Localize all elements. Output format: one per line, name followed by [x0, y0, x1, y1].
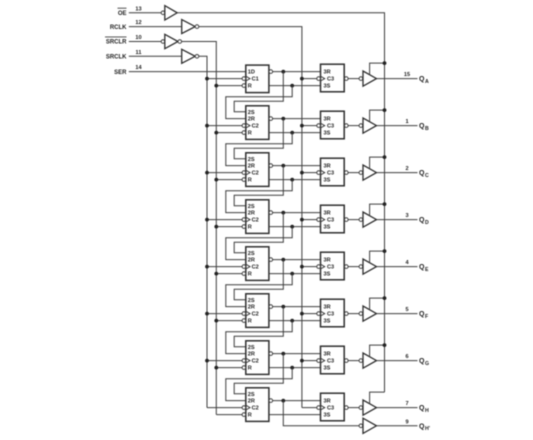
output buffer B6	[359, 306, 376, 321]
svg-text:2R: 2R	[248, 164, 255, 170]
svg-text:3S: 3S	[324, 225, 331, 231]
wire latch L7 to buffer	[348, 360, 359, 362]
wire FF4 Q to latch 3R	[273, 211, 321, 215]
wire FF7 Q to FF8 2S	[234, 354, 283, 394]
wire SRCLK to C input FF4	[205, 218, 242, 222]
wire SRCLK bus	[199, 56, 207, 407]
wire SRCLR bus	[182, 42, 217, 415]
svg-text:R: R	[248, 178, 252, 184]
svg-text:3R: 3R	[324, 399, 331, 405]
input label SER (pin 14)	[114, 65, 142, 76]
flip-flop FF1	[242, 65, 273, 93]
svg-text:A: A	[425, 79, 429, 85]
svg-text:C2: C2	[252, 406, 259, 412]
wire OE enable to buffer B7	[370, 343, 387, 357]
latch L1	[317, 64, 348, 92]
wire OE enable to buffer B3	[370, 155, 387, 168]
wire FF3 Qbar to FF4 2R	[226, 180, 292, 213]
pin 3	[405, 213, 408, 219]
wire FF8 Qbar to latch 3S	[269, 414, 321, 416]
svg-text:3S: 3S	[324, 319, 331, 325]
svg-text:11: 11	[136, 50, 142, 56]
flip-flop FF2	[242, 106, 273, 140]
wire output QE	[377, 266, 418, 268]
svg-text:R: R	[248, 413, 252, 419]
svg-text:3S: 3S	[324, 131, 331, 137]
wire SRCLK input	[129, 55, 182, 57]
svg-text:C2: C2	[252, 124, 259, 130]
flip-flop FF8	[242, 388, 273, 422]
svg-text:9: 9	[405, 419, 408, 425]
svg-text:3S: 3S	[324, 366, 331, 372]
svg-text:SRCLR: SRCLR	[106, 40, 127, 46]
svg-text:3R: 3R	[324, 258, 331, 264]
wire SRCLR to R input FF5	[214, 272, 242, 276]
wire FF2 Qbar to latch 3S	[269, 131, 321, 135]
wire FF6 Q to FF7 2S	[234, 307, 283, 347]
svg-text:C2: C2	[252, 265, 259, 271]
wire latch L4 to buffer	[348, 219, 359, 221]
svg-text:C3: C3	[327, 312, 334, 318]
wire SRCLK to C input FF8	[207, 407, 242, 409]
wire FF5 Q to latch 3R	[273, 258, 321, 262]
wire output QF	[377, 313, 418, 315]
wire FF3 Qbar to latch 3S	[269, 178, 321, 182]
buffer U4 SRCLK	[182, 49, 199, 63]
svg-text:C3: C3	[327, 406, 334, 412]
buffer U2 RCLK	[182, 20, 199, 34]
wire output QH'	[377, 425, 418, 427]
svg-text:2: 2	[405, 166, 408, 172]
output buffer B9 QH'	[359, 418, 376, 433]
wire output QH	[377, 407, 418, 409]
wire latch L6 to buffer	[348, 313, 359, 315]
svg-text:G: G	[425, 361, 429, 367]
wire FF1 Qbar to FF2 2R	[226, 86, 292, 119]
svg-text:2S: 2S	[248, 204, 255, 210]
label QH'	[419, 423, 430, 432]
svg-text:RCLK: RCLK	[110, 25, 127, 31]
svg-text:C2: C2	[252, 312, 259, 318]
svg-text:C2: C2	[252, 171, 259, 177]
pin 9	[405, 419, 408, 425]
flip-flop FF6	[242, 294, 273, 328]
output buffer B4	[359, 212, 376, 227]
svg-text:3S: 3S	[324, 272, 331, 278]
wire FF5 Qbar to latch 3S	[269, 272, 321, 276]
svg-text:4: 4	[405, 260, 409, 266]
svg-text:B: B	[425, 126, 429, 132]
wire FF3 Q to latch 3R	[273, 164, 321, 168]
label QE	[419, 264, 429, 273]
latch L7	[317, 346, 348, 374]
wire latch L1 to buffer	[348, 78, 359, 80]
svg-text:2R: 2R	[248, 117, 255, 123]
svg-text:R: R	[248, 319, 252, 325]
svg-text:14: 14	[135, 65, 142, 71]
svg-text:3R: 3R	[324, 352, 331, 358]
label QB	[419, 123, 429, 132]
svg-text:3S: 3S	[324, 413, 331, 419]
latch L2	[317, 111, 348, 139]
svg-text:1: 1	[405, 119, 408, 125]
wire FF6 Qbar to FF7 2R	[226, 321, 292, 354]
wire latch L5 to buffer	[348, 266, 359, 268]
wire FF7 Qbar to latch 3S	[269, 366, 321, 370]
wire FF1 Q to FF2 2S	[234, 72, 283, 112]
svg-text:6: 6	[405, 354, 408, 360]
svg-text:2S: 2S	[248, 392, 255, 398]
svg-text:F: F	[425, 314, 428, 320]
wire SRCLR to R input FF2	[214, 131, 242, 135]
svg-text:C2: C2	[252, 359, 259, 365]
svg-text:R: R	[248, 131, 252, 137]
svg-text:C: C	[425, 173, 429, 179]
wire SRCLK to C input FF6	[205, 312, 242, 316]
output buffer B3	[359, 165, 376, 180]
svg-text:OE: OE	[118, 11, 127, 17]
latch L4	[317, 205, 348, 233]
wire FF4 Qbar to FF5 2R	[226, 227, 292, 260]
wire SRCLR to R input FF6	[214, 319, 242, 323]
wire FF1 Q to latch 3R	[273, 70, 321, 74]
svg-text:D: D	[425, 220, 429, 226]
label QC	[419, 170, 429, 179]
output buffer B1	[359, 71, 376, 86]
pin 4	[405, 260, 409, 266]
wire SER to 1D	[129, 71, 246, 73]
svg-text:H': H'	[425, 426, 430, 432]
flip-flop FF7	[242, 341, 273, 375]
wire FF6 Qbar to latch 3S	[269, 319, 321, 323]
wire output QB	[377, 125, 418, 127]
wire output QD	[377, 219, 418, 221]
wire OE enable to buffer B2	[370, 108, 387, 122]
pin 1	[405, 119, 408, 125]
wire FF2 Q to latch 3R	[273, 117, 321, 121]
wire FF4 Q to FF5 2S	[234, 213, 283, 253]
svg-text:2R: 2R	[248, 211, 255, 217]
pin 15	[404, 72, 410, 78]
wire output QC	[377, 172, 418, 174]
wire SRCLR to R input FF4	[214, 225, 242, 229]
pin 2	[405, 166, 408, 172]
wire SRCLR to R input FF3	[214, 178, 242, 182]
wire output QA	[377, 78, 418, 80]
svg-text:C3: C3	[327, 359, 334, 365]
svg-text:E: E	[425, 267, 429, 273]
svg-text:2R: 2R	[248, 399, 255, 405]
wire SRCLK to C input FF1	[205, 77, 242, 81]
wire FF8 Q to latch 3R	[273, 399, 321, 403]
latch L5	[317, 252, 348, 280]
wire OE enable bus	[177, 13, 384, 392]
svg-text:7: 7	[405, 401, 408, 407]
wire SRCLR to R input FF7	[214, 366, 242, 370]
output buffer B2	[359, 118, 376, 133]
flip-flop FF5	[242, 247, 273, 281]
svg-text:3S: 3S	[324, 84, 331, 90]
wire FF2 Q to FF3 2S	[234, 119, 283, 159]
latch L3	[317, 158, 348, 186]
svg-text:SRCLK: SRCLK	[106, 55, 127, 61]
svg-text:3R: 3R	[324, 117, 331, 123]
svg-text:2S: 2S	[248, 251, 255, 257]
wire SRCLK to C input FF7	[205, 359, 242, 363]
output buffer B7	[359, 353, 376, 368]
wire OE enable to buffer B8	[370, 392, 385, 404]
wire SRCLK to C input FF3	[205, 171, 242, 175]
svg-text:C3: C3	[327, 218, 334, 224]
svg-text:15: 15	[404, 72, 410, 78]
svg-text:C3: C3	[327, 171, 334, 177]
svg-text:C3: C3	[327, 77, 334, 83]
buffer U3 SRCLR	[161, 34, 181, 48]
wire FF8 Q to QH' buffer	[283, 401, 359, 426]
svg-text:2R: 2R	[248, 305, 255, 311]
svg-text:C1: C1	[252, 77, 259, 83]
svg-text:C3: C3	[327, 265, 334, 271]
wire FF4 Qbar to latch 3S	[269, 225, 321, 229]
svg-text:3R: 3R	[324, 70, 331, 76]
wire SRCLR to R input FF8	[216, 414, 242, 416]
svg-text:3R: 3R	[324, 164, 331, 170]
wire output QG	[377, 360, 418, 362]
svg-text:13: 13	[135, 6, 141, 12]
wire FF3 Q to FF4 2S	[234, 166, 283, 206]
wire RCLK to C3 latch L8	[302, 407, 317, 409]
wire SRCLR to R input FF1	[214, 84, 242, 88]
wire RCLK to C3 latch L7	[300, 359, 317, 363]
label QA	[419, 76, 429, 85]
svg-text:10: 10	[135, 35, 141, 41]
wire RCLK to C3 latch L1	[300, 77, 317, 81]
svg-text:R: R	[248, 84, 252, 90]
label QG	[419, 358, 429, 367]
wire SRCLK to C input FF5	[205, 265, 242, 269]
wire FF7 Q to latch 3R	[273, 352, 321, 356]
svg-text:C3: C3	[327, 124, 334, 130]
wire RCLK to C3 latch L3	[300, 171, 317, 175]
svg-text:R: R	[248, 272, 252, 278]
pin 7	[405, 401, 408, 407]
svg-text:3S: 3S	[324, 178, 331, 184]
svg-text:2S: 2S	[248, 157, 255, 163]
svg-text:2S: 2S	[248, 298, 255, 304]
label QF	[419, 311, 428, 320]
input label SRCLK (pin 11)	[106, 50, 142, 61]
buffer U1 OE	[161, 6, 177, 20]
wire SRCLR input	[129, 41, 161, 43]
wire RCLK to C3 latch L5	[300, 265, 317, 269]
wire latch L2 to buffer	[348, 125, 359, 127]
wire RCLK to C3 latch L6	[300, 312, 317, 316]
wire FF6 Q to latch 3R	[273, 305, 321, 309]
svg-text:3R: 3R	[324, 211, 331, 217]
pin 5	[405, 307, 408, 313]
svg-text:R: R	[248, 366, 252, 372]
svg-text:2R: 2R	[248, 258, 255, 264]
wire RCLK to C3 latch L4	[300, 218, 317, 222]
wire OE enable to buffer B4	[370, 202, 387, 215]
svg-text:H: H	[425, 408, 429, 414]
pin 6	[405, 354, 408, 360]
flip-flop FF3	[242, 153, 273, 187]
svg-text:C2: C2	[252, 218, 259, 224]
wire OE enable to buffer B1	[370, 61, 387, 75]
wire FF7 Qbar to FF8 2R	[226, 368, 292, 401]
wire FF2 Qbar to FF3 2R	[226, 133, 292, 166]
latch L6	[317, 299, 348, 327]
wire latch L8 to buffer	[348, 407, 359, 409]
svg-text:3R: 3R	[324, 305, 331, 311]
svg-text:SER: SER	[114, 70, 127, 76]
wire OE input	[129, 12, 161, 14]
wire FF1 Qbar to latch 3S	[269, 84, 321, 88]
svg-text:2S: 2S	[248, 345, 255, 351]
input label OE (pin 13)	[118, 6, 142, 17]
svg-text:R: R	[248, 225, 252, 231]
wire OE enable to buffer B6	[370, 296, 387, 310]
latch L8	[317, 393, 348, 421]
wire SRCLK to C input FF2	[205, 124, 242, 128]
svg-text:1D: 1D	[248, 70, 255, 76]
input label SRCLR (pin 10)	[105, 35, 142, 46]
output buffer B5	[359, 259, 376, 274]
wire latch L3 to buffer	[348, 172, 359, 174]
svg-text:5: 5	[405, 307, 408, 313]
wire OE enable to buffer B5	[370, 249, 387, 263]
label QD	[419, 217, 429, 226]
input label RCLK (pin 12)	[110, 20, 142, 31]
label QH	[419, 405, 429, 414]
svg-text:12: 12	[135, 20, 141, 26]
svg-text:3: 3	[405, 213, 408, 219]
svg-text:2S: 2S	[248, 110, 255, 116]
wire RCLK to C3 latch L2	[300, 124, 317, 128]
wire RCLK input	[129, 26, 182, 28]
wire FF5 Qbar to FF6 2R	[226, 274, 292, 307]
svg-text:2R: 2R	[248, 352, 255, 358]
wire RCLK bus	[199, 27, 302, 408]
flip-flop FF4	[242, 200, 273, 234]
output buffer B8	[359, 400, 376, 415]
wire FF5 Q to FF6 2S	[234, 260, 283, 300]
